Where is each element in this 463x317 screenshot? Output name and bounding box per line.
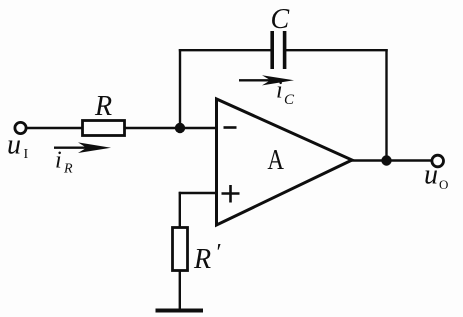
current arrowhead iC — [262, 75, 294, 85]
wire non-inverting input — [179, 192, 216, 194]
svg-text:C: C — [271, 4, 290, 35]
svg-text:O: O — [439, 177, 448, 192]
capacitor C right plate — [283, 31, 287, 69]
output terminal uO — [432, 155, 444, 167]
wire resistor R to inverting input node — [125, 127, 217, 129]
current arrow iR line — [54, 146, 95, 148]
op-amp A triangle — [217, 99, 353, 225]
wire input to resistor R — [27, 127, 83, 129]
current arrow iC line — [239, 79, 278, 81]
wire capacitor C to right vertical — [285, 49, 388, 51]
node at output junction — [381, 155, 391, 165]
svg-text:i: i — [55, 148, 62, 174]
plus sign at non-inverting input — [222, 192, 240, 195]
svg-text:C: C — [284, 92, 295, 108]
node at inverting input junction — [175, 123, 185, 133]
svg-text:I: I — [24, 147, 29, 162]
wire down to resistor R' — [179, 192, 181, 228]
svg-text:A: A — [267, 144, 284, 176]
wire resistor R' to ground — [179, 271, 181, 312]
svg-text:R: R — [193, 244, 211, 275]
capacitor C left plate — [270, 31, 274, 69]
ground — [156, 309, 204, 313]
input terminal u1 — [15, 122, 26, 133]
resistor R' — [173, 228, 188, 271]
resistor R — [83, 121, 125, 136]
wire top to capacitor C — [179, 49, 272, 51]
svg-text:i: i — [276, 78, 283, 104]
wire output — [351, 159, 432, 161]
svg-text:u: u — [424, 159, 438, 190]
current arrowhead iR — [78, 142, 111, 153]
minus sign at inverting input — [224, 126, 237, 129]
wire feedback vertical left — [179, 49, 181, 128]
svg-text:u: u — [7, 129, 21, 160]
svg-text:R: R — [94, 91, 112, 122]
svg-text:R: R — [63, 162, 73, 177]
svg-text:′: ′ — [215, 240, 221, 266]
wire feedback vertical right — [385, 49, 387, 161]
